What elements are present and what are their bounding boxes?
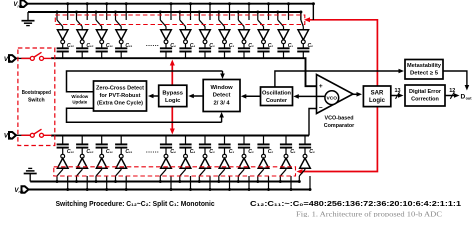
ground (top-left)	[27, 12, 29, 20]
driver buffer (bottom cell 4)	[119, 154, 123, 158]
top switch bank dashed enclosure	[55, 15, 304, 25]
bottom plate rail to comparator - (wire)	[51, 135, 309, 137]
wire comparator output to SAR Logic	[352, 93, 359, 95]
block Digital Error Correction	[405, 85, 445, 106]
bottom DAC cell 12 (C0)	[298, 136, 315, 192]
driver buffer (bottom cell 8)	[223, 154, 227, 158]
red control path from SAR region to top/bottom switch banks (wire)	[299, 20, 377, 172]
switch S12b contacts and arm (bottom cell 1)	[62, 168, 64, 169]
bottom Vref bus (wire)	[29, 189, 310, 191]
driver buffer (bottom cell 2)	[80, 154, 84, 158]
driver buffer (bottom cell 9)	[242, 154, 246, 158]
capacitor C1 (bottom row)	[285, 136, 287, 145]
wire Vin to switch	[17, 134, 30, 136]
capacitor C11 (bottom row)	[101, 136, 103, 145]
switch S11t contacts and arm (top cell 3)	[106, 4, 108, 20]
svg-text:for PVT-Robust: for PVT-Robust	[100, 93, 141, 99]
svg-text:C₃: C₃	[229, 43, 235, 49]
driver buffer (top cell 8)	[219, 30, 230, 40]
block Zero-Cross Detect	[94, 81, 147, 111]
bottom DAC cell 11 (C1)	[279, 136, 296, 192]
svg-text:C₄: C₄	[170, 43, 176, 49]
switch S0b contacts and arm (bottom cell 12)	[304, 168, 306, 169]
driver buffer (top cell 10)	[258, 30, 269, 40]
bottom switch bank dashed enclosure	[54, 167, 296, 176]
svg-text:Oscillation: Oscillation	[262, 90, 292, 96]
block Oscillation Counter	[261, 87, 293, 106]
bootstrapped switch (bottom sampling switch)	[21, 134, 30, 136]
driver buffer (bottom cell 3)	[100, 154, 104, 158]
svg-text:(Extra One Cycle): (Extra One Cycle)	[97, 101, 143, 107]
svg-text:2/ 3/ 4: 2/ 3/ 4	[214, 101, 231, 107]
capacitor C11 (top row)	[101, 44, 103, 48]
svg-text:Detect ≥ 5: Detect ≥ 5	[410, 71, 438, 77]
switch S11b contacts and arm (bottom cell 4)	[120, 168, 122, 169]
svg-text:C₃: C₃	[209, 43, 215, 49]
svg-text:C₀: C₀	[308, 43, 314, 49]
svg-text:Metastability: Metastability	[407, 63, 442, 69]
driver buffer (top cell 7)	[200, 30, 211, 40]
port Vip (input top)	[9, 55, 16, 62]
switch S11t contacts and arm (top cell 4)	[125, 4, 127, 20]
driver buffer (top cell 4)	[116, 30, 127, 40]
top DAC cell 9 (C2)	[237, 2, 254, 58]
svg-text:Window: Window	[71, 94, 88, 99]
driver buffer (top cell 12)	[298, 30, 309, 40]
top plate rail to comparator + (wire)	[51, 58, 316, 86]
svg-text:Update: Update	[72, 100, 87, 105]
driver buffer (top cell 1)	[57, 30, 68, 40]
capacitor C3 (bottom row)	[204, 136, 206, 145]
wire Window Detect to Bypass Logic	[192, 95, 203, 97]
svg-text:C₀: C₀	[309, 149, 315, 155]
block Window Detect 2/3/4	[203, 80, 240, 112]
block Metastability Detect	[405, 60, 443, 80]
svg-text:−: −	[319, 104, 323, 111]
capacitor C0 (top row)	[302, 44, 304, 48]
wire Metastability Detect to Dout	[443, 71, 467, 87]
bottom DAC cell 1 (C12)	[56, 136, 75, 192]
port Vref (bottom)	[22, 186, 29, 193]
svg-text:Correction: Correction	[411, 97, 439, 103]
svg-text:C₁₂: C₁₂	[86, 149, 93, 155]
svg-text:C₁₂: C₁₂	[67, 149, 74, 155]
top DAC cell 3 (C11)	[95, 2, 114, 58]
ground (bottom-left)	[28, 167, 32, 169]
capacitor C0 (bottom row)	[304, 136, 306, 145]
switch S4t contacts and arm (top cell 5)	[170, 4, 172, 20]
svg-text:C₁₁: C₁₁	[106, 43, 113, 49]
capacitor C3 (top row)	[204, 44, 206, 48]
wire Vip to switch	[17, 57, 30, 59]
wire comparator VCO tap to Oscillation Counter	[297, 95, 325, 97]
bottom DAC cell 6 (C4)	[178, 136, 195, 192]
switch S12t contacts and arm (top cell 2)	[86, 4, 88, 20]
bottom DAC cell 9 (C2)	[237, 136, 254, 192]
driver buffer (bottom cell 12)	[303, 154, 307, 158]
top DAC cell 7 (C3)	[198, 2, 215, 58]
switch S2t contacts and arm (top cell 10)	[268, 4, 270, 20]
svg-text:VCO-based: VCO-based	[324, 116, 353, 122]
svg-text:out: out	[466, 97, 473, 101]
wire Digital Error Correction to Dout (12-bit bus)	[445, 95, 456, 97]
window-update feedback wire (lower)	[67, 108, 222, 122]
svg-text:C₂: C₂	[268, 43, 274, 49]
bottom DAC cell 4 (C11)	[114, 136, 133, 192]
bottom DAC cell 2 (C12)	[75, 136, 94, 192]
port Vin (input bottom)	[9, 132, 16, 139]
bottom DAC cell 7 (C3)	[198, 136, 215, 192]
switch S3t contacts and arm (top cell 8)	[229, 4, 231, 20]
top DAC cell 8 (C3)	[217, 2, 234, 58]
bottom DAC cell 5 (C4)	[159, 136, 176, 192]
driver buffer (bottom cell 11)	[284, 154, 288, 158]
switch S0t contacts and arm (top cell 12)	[312, 4, 314, 20]
capacitor C12 (bottom row)	[62, 136, 64, 145]
switch S1b contacts and arm (bottom cell 11)	[285, 168, 287, 169]
capacitor C4 (bottom row)	[165, 136, 167, 145]
svg-text:C₁: C₁	[288, 43, 294, 49]
svg-text:C₁₁: C₁₁	[125, 43, 132, 49]
switch S4b contacts and arm (bottom cell 6)	[185, 168, 187, 169]
bottom DAC cell 3 (C11)	[95, 136, 114, 192]
capacitor C3 (bottom row)	[224, 136, 226, 145]
svg-text:Logic: Logic	[369, 98, 386, 104]
svg-text:C₄: C₄	[190, 43, 196, 49]
top DAC cell 10 (C2)	[256, 2, 273, 58]
capacitor C11 (bottom row)	[120, 136, 122, 145]
svg-text:Logic: Logic	[165, 98, 181, 104]
bootstrapped switch (top sampling switch)	[21, 57, 30, 59]
driver buffer (top cell 6)	[180, 30, 191, 40]
top DAC cell 11 (C1)	[276, 2, 293, 58]
driver buffer (top cell 2)	[77, 30, 88, 40]
switch S2b contacts and arm (bottom cell 9)	[243, 168, 245, 169]
capacitor C2 (bottom row)	[243, 136, 245, 145]
window-update feedback wire (upper)	[67, 71, 223, 92]
svg-text:Comparator: Comparator	[324, 123, 355, 129]
svg-text:C₂: C₂	[248, 43, 254, 49]
switch S2b contacts and arm (bottom cell 10)	[263, 168, 265, 169]
capacitor C11 (top row)	[120, 44, 122, 48]
capacitor C12 (top row)	[62, 44, 64, 48]
svg-text:C₁: C₁	[290, 149, 296, 155]
wire Bypass Logic to Zero-Cross Detect	[152, 95, 159, 97]
svg-text:+: +	[319, 83, 323, 90]
svg-text:C₃: C₃	[209, 149, 215, 155]
svg-text:C₁₂:C₁₁:~:C₀=480:256:136:72:36: C₁₂:C₁₁:~:C₀=480:256:136:72:36:20:10:6:4…	[250, 199, 461, 208]
capacitor C3 (top row)	[224, 44, 226, 48]
driver buffer (top cell 9)	[239, 30, 250, 40]
switch S11b contacts and arm (bottom cell 3)	[101, 168, 103, 169]
block Bypass Logic	[159, 85, 187, 106]
capacitor C4 (top row)	[185, 44, 187, 48]
svg-text:C₁₂: C₁₂	[67, 43, 74, 49]
top DAC cell 2 (C12)	[75, 2, 94, 58]
driver buffer (bottom cell 5)	[164, 154, 168, 158]
switch S12b contacts and arm (bottom cell 2)	[81, 168, 83, 169]
capacitor C2 (top row)	[263, 44, 265, 48]
switch S12t contacts and arm (top cell 1)	[67, 4, 69, 20]
top DAC cell 5 (C4)	[159, 2, 176, 58]
driver buffer (top cell 5)	[161, 30, 172, 40]
top DAC cell 1 (C12)	[56, 2, 75, 58]
switch S4b contacts and arm (bottom cell 5)	[165, 168, 167, 169]
bottom DAC cell 8 (C3)	[217, 136, 234, 192]
capacitor C12 (bottom row)	[81, 136, 83, 145]
bottom DAC cell 10 (C2)	[256, 136, 273, 192]
switch S4t contacts and arm (top cell 6)	[190, 4, 192, 20]
wire SAR Logic to Digital Error Correction (13-bit bus)	[391, 95, 400, 97]
port Vref (top)	[21, 0, 28, 7]
svg-text:......: ......	[146, 148, 159, 155]
svg-text:C₁₂: C₁₂	[86, 43, 93, 49]
svg-text:Counter: Counter	[266, 98, 288, 104]
bootstrapped switch dashed enclosure	[18, 48, 55, 146]
svg-text:C₄: C₄	[190, 149, 196, 155]
svg-text:C₂: C₂	[248, 149, 254, 155]
top Vref bus (wire)	[28, 3, 313, 5]
svg-text:Bootstrapped: Bootstrapped	[22, 90, 51, 96]
svg-text:Detect: Detect	[213, 93, 231, 99]
wire Oscillation Counter to Window Detect	[244, 95, 260, 97]
svg-text:Switching Procedure: C₁₂~C₂: S: Switching Procedure: C₁₂~C₂: Split C₁: M…	[56, 199, 215, 208]
svg-text:12: 12	[449, 88, 455, 94]
svg-text:......: ......	[146, 41, 159, 48]
capacitor C4 (bottom row)	[185, 136, 187, 145]
block SAR Logic	[363, 86, 390, 107]
driver buffer (top cell 11)	[278, 30, 289, 40]
svg-text:Switch: Switch	[28, 98, 45, 104]
switch S1t contacts and arm (top cell 11)	[288, 4, 290, 20]
driver buffer (bottom cell 1)	[61, 154, 65, 158]
svg-text:C₁₁: C₁₁	[106, 149, 113, 155]
bottom GND bus (wire)	[30, 181, 299, 183]
svg-text:C₄: C₄	[170, 149, 176, 155]
capacitor C12 (top row)	[81, 44, 83, 48]
driver buffer (bottom cell 7)	[203, 154, 207, 158]
capacitor C1 (top row)	[283, 44, 285, 48]
wire Oscillation Counter to Metastability Detect	[275, 71, 401, 87]
svg-text:Window: Window	[211, 85, 234, 91]
red DAC-update arrow (vertical, both ends)	[171, 63, 173, 132]
driver buffer (bottom cell 10)	[262, 154, 266, 158]
svg-text:C₂: C₂	[268, 149, 274, 155]
top DAC cell 4 (C11)	[114, 2, 133, 58]
top DAC cell 12 (C0)	[297, 2, 315, 58]
switch S2t contacts and arm (top cell 9)	[248, 4, 250, 20]
capacitor C2 (top row)	[243, 44, 245, 48]
switch S3b contacts and arm (bottom cell 7)	[204, 168, 206, 169]
svg-text:VCO: VCO	[327, 96, 338, 101]
svg-text:13: 13	[394, 88, 400, 94]
svg-text:ref: ref	[18, 4, 23, 8]
driver buffer (bottom cell 6)	[184, 154, 188, 158]
svg-text:Bypass: Bypass	[162, 91, 183, 97]
capacitor C2 (bottom row)	[263, 136, 265, 145]
switch S3t contacts and arm (top cell 7)	[209, 4, 211, 20]
op-amp U1 VCO-based comparator	[317, 75, 354, 114]
driver buffer (top cell 3)	[96, 30, 107, 40]
top DAC cell 6 (C4)	[178, 2, 195, 58]
switch S3b contacts and arm (bottom cell 8)	[224, 168, 226, 169]
top GND bus (wire)	[28, 11, 301, 13]
svg-text:ref: ref	[19, 190, 24, 194]
svg-text:Fig. 1. Architecture of propos: Fig. 1. Architecture of proposed 10-b AD…	[296, 210, 442, 218]
svg-text:C₃: C₃	[229, 149, 235, 155]
svg-text:Digital Error: Digital Error	[409, 89, 442, 95]
capacitor C4 (top row)	[165, 44, 167, 48]
svg-text:SAR: SAR	[371, 90, 384, 96]
svg-text:Zero-Cross Detect: Zero-Cross Detect	[96, 86, 144, 92]
svg-text:C₁₁: C₁₁	[125, 149, 132, 155]
